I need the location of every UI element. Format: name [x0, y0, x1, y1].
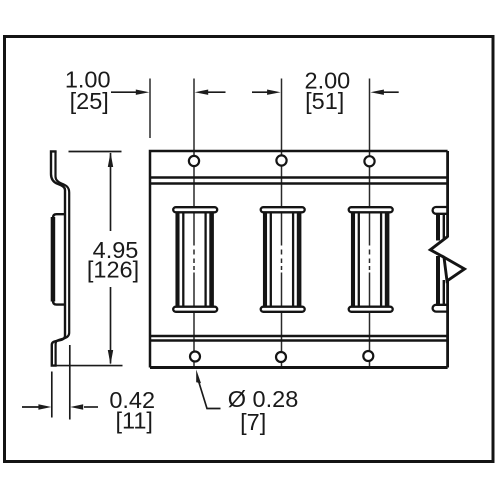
svg-text:[51]: [51]: [305, 88, 344, 114]
svg-text:[25]: [25]: [70, 88, 109, 114]
svg-text:[7]: [7]: [240, 409, 266, 435]
svg-text:[126]: [126]: [87, 256, 139, 282]
svg-text:[11]: [11]: [115, 408, 152, 434]
